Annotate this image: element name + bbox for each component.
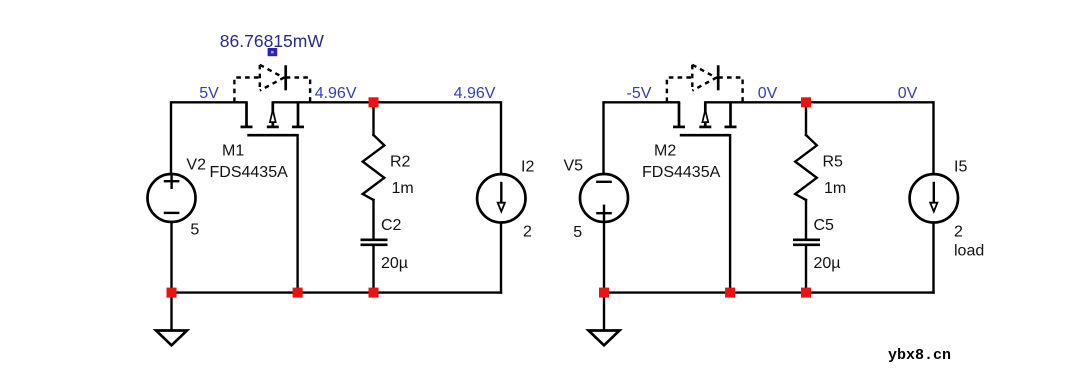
ground (left): [156, 293, 187, 345]
svg-text:1m: 1m: [824, 180, 846, 197]
svg-text:2: 2: [523, 224, 532, 241]
wire V2 bottom: [170, 222, 172, 293]
svg-text:V5: V5: [564, 158, 584, 175]
svg-text:load: load: [954, 243, 984, 260]
svg-text:5V: 5V: [199, 85, 219, 102]
svg-text:I2: I2: [521, 159, 534, 176]
wire top-right from M2 drain to I5: [705, 102, 933, 174]
wire C2 bottom lead: [372, 246, 374, 293]
svg-text:R5: R5: [823, 153, 844, 170]
wire top-right from M1 drain to I2: [273, 102, 501, 174]
svg-text:M2: M2: [654, 142, 676, 159]
body diode of M2 (dashed): [667, 65, 743, 102]
wire C5 bottom lead: [805, 246, 807, 293]
wire I2 bottom: [500, 222, 502, 293]
transistor M1 (PMOS): [241, 102, 305, 135]
svg-text:0V: 0V: [758, 85, 778, 102]
svg-text:-5V: -5V: [627, 85, 652, 102]
svg-text:2: 2: [954, 224, 963, 241]
wire top-left from V5 to M2 source: [604, 102, 680, 175]
svg-text:I5: I5: [954, 159, 967, 176]
ground (right): [589, 293, 620, 345]
body diode of M1 (dashed): [234, 65, 310, 102]
wire R5 top lead: [805, 102, 807, 135]
svg-text:M1: M1: [222, 142, 244, 159]
wire top-left from V2 to M1 source: [171, 102, 247, 175]
transistor M2 (PMOS): [673, 102, 737, 135]
wire I5 bottom: [932, 222, 934, 293]
wire R5-C5 middle lead: [805, 200, 807, 239]
wire bottom rail left circuit: [172, 291, 502, 293]
svg-text:20µ: 20µ: [381, 255, 408, 272]
wire M1 gate lead down: [296, 135, 298, 292]
svg-text:C5: C5: [814, 217, 835, 234]
voltage source V5 (inverted polarity): [580, 174, 628, 222]
junction (V5 / rail): [599, 288, 609, 298]
svg-text:86.76815mW: 86.76815mW: [220, 31, 325, 51]
junction (C5 / rail): [801, 288, 811, 298]
junction (M2 gate / rail): [725, 288, 735, 298]
power probe marker (blue square): [268, 48, 278, 56]
junction (R5 / top wire): [801, 97, 811, 107]
current source I5: [910, 174, 958, 222]
svg-text:V2: V2: [186, 157, 206, 174]
junction (V2 / rail): [167, 288, 177, 298]
wire bottom rail right circuit: [604, 291, 934, 293]
svg-text:C2: C2: [381, 217, 402, 234]
wire V5 bottom: [603, 222, 605, 293]
junction (R2 / top wire): [369, 97, 379, 107]
svg-text:1m: 1m: [392, 180, 414, 197]
svg-text:0V: 0V: [898, 85, 918, 102]
wire R2 top lead: [372, 102, 374, 135]
wire M2 gate lead down: [729, 135, 731, 292]
svg-text:FDS4435A: FDS4435A: [642, 164, 721, 181]
svg-text:R2: R2: [390, 153, 411, 170]
capacitor C5: [793, 240, 820, 245]
svg-text:5: 5: [573, 224, 582, 241]
voltage source V2: [148, 174, 196, 222]
svg-text:4.96V: 4.96V: [454, 85, 496, 102]
resistor R5: [795, 135, 817, 200]
junction (M1 gate / rail): [293, 288, 303, 298]
svg-text:ybx8.cn: ybx8.cn: [888, 347, 951, 364]
svg-text:4.96V: 4.96V: [315, 85, 357, 102]
junction (C2 / rail): [369, 288, 379, 298]
current source I2: [477, 174, 525, 222]
resistor R2: [363, 135, 385, 200]
wire R2-C2 middle lead: [372, 200, 374, 239]
capacitor C2: [361, 240, 388, 245]
svg-text:FDS4435A: FDS4435A: [210, 164, 289, 181]
svg-text:5: 5: [190, 222, 199, 239]
svg-text:20µ: 20µ: [814, 255, 841, 272]
